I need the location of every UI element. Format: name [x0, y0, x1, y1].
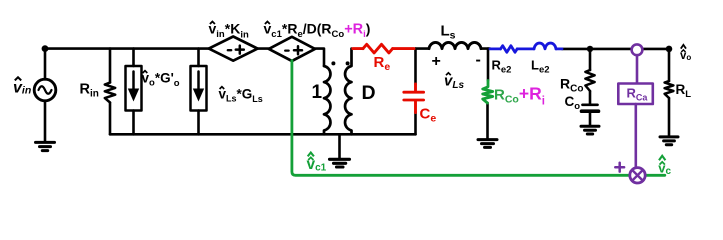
- capacitor Ce bottom plate: [404, 99, 424, 102]
- purple sense network: [615, 44, 653, 183]
- label vc1*Re/D(RCo+Ri) (hat): [265, 22, 270, 25]
- resistor RL branch wires: [668, 49, 671, 135]
- E1 minus sign: [228, 49, 231, 51]
- resistor RCa box: [618, 84, 653, 105]
- wire from node A down to source Vin: [44, 49, 47, 80]
- label vo (arrow chevron): [681, 45, 686, 49]
- wire RCo node to output node: [632, 48, 669, 51]
- wire green control line from E2 bottom to multiplier: [292, 61, 665, 176]
- wire bottom rail: [110, 133, 416, 136]
- wire purple probe to RCa box: [636, 55, 639, 83]
- resistor RCo+Ri branch black bottom segment: [486, 103, 489, 138]
- wire black top after Re junction to Ls: [416, 47, 430, 50]
- current source G2 box (vLs*GLs): [191, 66, 207, 111]
- label vLs (hat): [446, 73, 451, 75]
- wire blue Le2 out: [556, 48, 562, 51]
- multiplier circle X: [630, 168, 645, 183]
- wire purple RCa box to multiplier: [634, 104, 637, 168]
- label vc green (arrow chevron): [659, 156, 665, 160]
- current source G1 arrow: [132, 72, 135, 90]
- resistor Re red branch: [353, 44, 424, 112]
- wire green right of multiplier: [645, 174, 665, 177]
- source Vin sine wave: [39, 86, 52, 94]
- resistor Re2 and inductor Le2 blue branch: [490, 43, 562, 52]
- current source G1 box (vo*G'o): [126, 66, 142, 111]
- wire blue Re2 to Le2: [517, 48, 534, 51]
- label vo (hat): [681, 50, 685, 52]
- node output node dot: [666, 46, 673, 53]
- dependent source E2 diamond (vc1*Re/D(RCo+Ri)): [269, 37, 315, 61]
- capacitor Ce top plate: [404, 91, 424, 94]
- current source G2 arrow: [197, 72, 200, 90]
- label vin (hat): [15, 77, 21, 80]
- wire black from Le2 to RCo node: [562, 48, 632, 51]
- E1 plus sign: [236, 46, 244, 54]
- probe circle on output rail: [632, 44, 643, 55]
- current source G1 bottom stub: [132, 111, 135, 135]
- wire blue from node to Re2: [490, 48, 501, 51]
- ground below transformer: [330, 159, 350, 167]
- resistor RCo+Ri branch black top segment: [487, 49, 490, 81]
- resistor RL zigzag: [665, 81, 674, 98]
- resistor RCo+Ri green zigzag: [483, 81, 493, 104]
- capacitor Co plates: [583, 103, 598, 106]
- resistor RCo zigzag: [585, 70, 594, 91]
- capacitor Ce red upper lead: [414, 84, 417, 90]
- transformer primary winding 1: [324, 66, 330, 134]
- ground below Co: [581, 126, 599, 134]
- E2 plus sign: [294, 46, 302, 54]
- current source G1 top stub: [132, 49, 135, 66]
- wire red Re to Ce junction: [393, 47, 414, 50]
- transformer phase dot primary: [331, 61, 335, 65]
- wire from E2 to transformer primary top: [315, 49, 324, 66]
- label vc1 green (arrow chevron): [308, 153, 314, 157]
- dependent source E1 diamond (vin*Kin): [209, 37, 258, 61]
- capacitor Ce branch lower black segment: [414, 112, 417, 134]
- wire between diamonds: [258, 47, 269, 50]
- resistor Re2 zigzag: [501, 46, 518, 53]
- plus sign at multiplier input: [615, 163, 624, 172]
- resistor Re zigzag: [363, 44, 393, 53]
- resistor Rin vertical branch: [109, 49, 112, 135]
- resistor RCo branch wire: [589, 49, 592, 104]
- label vo*G'o (hat): [143, 71, 148, 73]
- ground below RCo+Ri: [478, 140, 497, 148]
- capacitor Ce red lower lead: [414, 102, 417, 113]
- source Vin AC source circle: [34, 79, 56, 101]
- svg-text:1: 1: [312, 82, 323, 103]
- wire from Vin to ground: [44, 101, 47, 141]
- transformer secondary winding D: [345, 49, 351, 135]
- capacitor Ce branch upper black segment: [414, 49, 417, 84]
- inductor Ls coil: [429, 42, 481, 48]
- current source G2 top stub: [197, 49, 200, 66]
- capacitor Co lower wire: [589, 113, 592, 125]
- transformer phase dot secondary: [346, 61, 350, 65]
- resistor Rin zigzag: [105, 83, 115, 103]
- current source G2 bottom stub: [197, 111, 200, 135]
- svg-text:D: D: [362, 82, 376, 104]
- label vc1 green (hat): [308, 157, 313, 160]
- ground below RL: [660, 137, 678, 145]
- ground below Vin: [36, 142, 55, 150]
- label vLs*GLs (hat): [220, 87, 225, 89]
- node A input top node dot: [42, 45, 49, 52]
- label vc green (hat): [660, 162, 665, 165]
- wire top rail from input node to diamond E1: [45, 47, 209, 50]
- wire ground stem below transformer: [338, 134, 341, 158]
- svg-text:+: +: [432, 53, 441, 70]
- inductor Le2 coil: [534, 43, 556, 49]
- wire Ls to RCo+Ri node: [481, 47, 490, 50]
- node RCo/Co junction dot: [587, 46, 593, 52]
- svg-text:-: -: [476, 52, 481, 69]
- wire red secondary top to Re: [353, 47, 363, 50]
- E2 minus sign: [285, 49, 288, 51]
- label vin*Kin (hat): [210, 22, 215, 25]
